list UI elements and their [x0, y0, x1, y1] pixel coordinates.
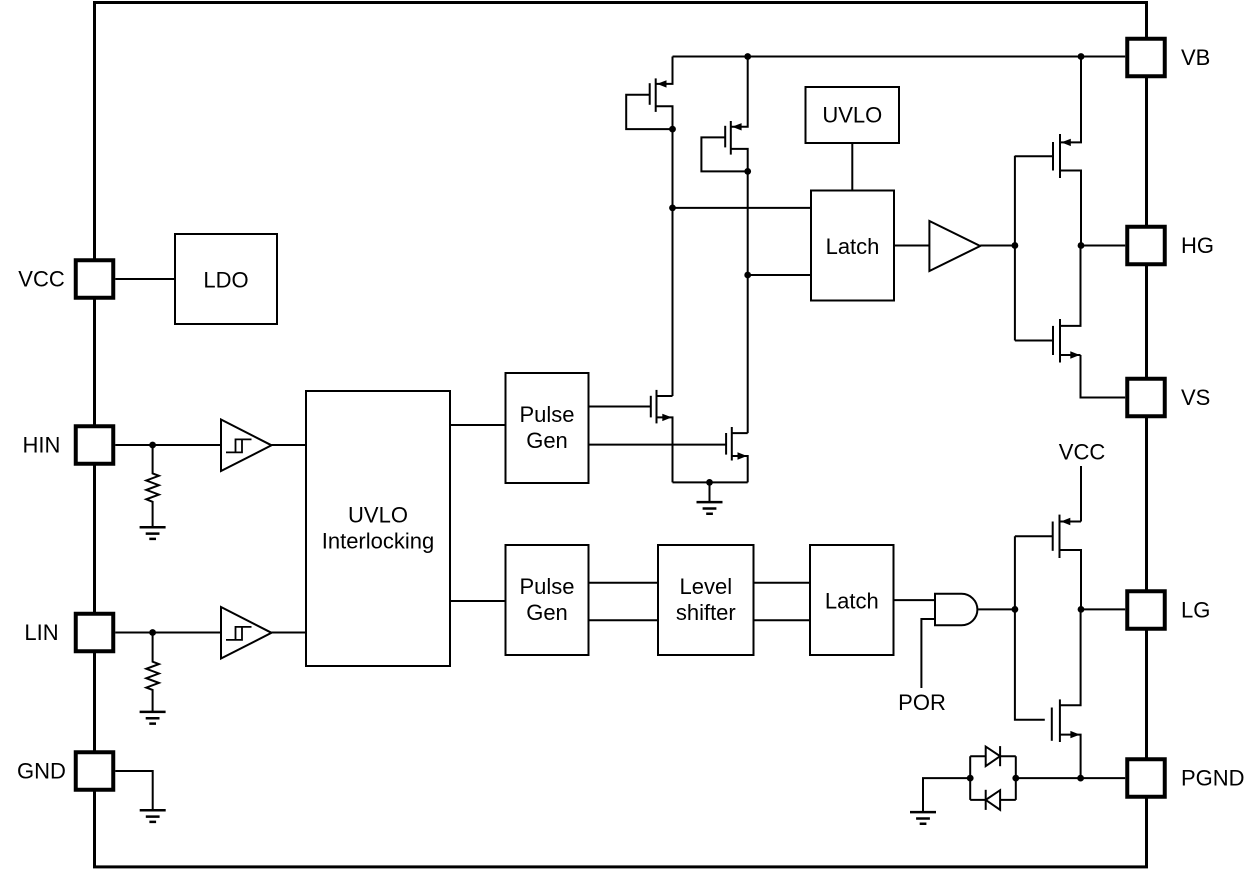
- junction diode pair left: [967, 775, 974, 782]
- svg-text:VB: VB: [1181, 45, 1210, 70]
- wire HG node to HG pin: [1081, 245, 1125, 247]
- arrow Q2 source (PMOS): [732, 123, 742, 130]
- wire Pulse Gen low to Level shifter (upper): [589, 582, 659, 584]
- wire UVLO Interlocking to Pulse Gen low: [450, 600, 506, 602]
- diode D2 (clamp, anode right): [970, 790, 1016, 810]
- transistor Q5 (LG high-side PMOS): [1015, 515, 1081, 610]
- diode D1 (clamp, anode left): [970, 746, 1016, 766]
- junction HIN input node: [149, 442, 156, 449]
- wire level shifter source rail: [673, 482, 748, 502]
- wire UVLO to Latch high: [851, 143, 853, 191]
- resistor R2 (LIN pulldown): [146, 633, 159, 712]
- junction LIN input node: [149, 629, 156, 636]
- junction bus A diode tie: [669, 126, 676, 133]
- AND gate (POR interlock): [935, 594, 977, 626]
- resistor R1 (HIN pulldown): [146, 445, 159, 527]
- svg-text:Latch: Latch: [825, 589, 879, 614]
- wire buffer to UVLO Interlocking (HIN): [272, 444, 307, 446]
- svg-text:LIN: LIN: [24, 620, 58, 645]
- svg-text:POR: POR: [898, 690, 946, 715]
- wire diode pair to PGND node: [1016, 777, 1081, 779]
- wire Latch low to AND gate: [894, 599, 936, 601]
- pin LIN: [76, 614, 114, 652]
- junction bus B diode tie: [744, 168, 751, 175]
- wire HG gate bus: [1014, 156, 1016, 341]
- pin LG: [1127, 591, 1165, 629]
- wire Level shifter to Latch low (upper): [754, 582, 811, 584]
- junction top rail bus B: [744, 53, 751, 60]
- svg-text:Gen: Gen: [526, 428, 568, 453]
- wire diode pair loop: [970, 756, 1016, 800]
- arrow Q6 source (NMOS): [1070, 731, 1080, 738]
- ground (GND pin): [140, 810, 166, 822]
- svg-text:shifter: shifter: [676, 600, 736, 625]
- junction bus B latch tap: [744, 272, 751, 279]
- block UVLO Interlocking: [306, 391, 450, 666]
- svg-text:LDO: LDO: [203, 268, 248, 293]
- buffer (Schmitt trigger, HIN): [221, 420, 272, 472]
- svg-text:UVLO: UVLO: [822, 103, 882, 128]
- arrow Q1 source (PMOS): [657, 80, 667, 87]
- junction LG output node: [1078, 606, 1085, 613]
- ground (level shifter source): [697, 502, 723, 514]
- block Latch (high side): [811, 191, 894, 301]
- svg-text:VCC: VCC: [1059, 440, 1106, 465]
- ground (HIN resistor): [140, 527, 166, 539]
- junction level shifter source rail: [706, 479, 713, 486]
- transistor Q8 (level shift NMOS B): [589, 427, 748, 482]
- transistor Q7 (level shift NMOS A): [589, 390, 673, 483]
- wire VCC stem to LG driver: [1080, 466, 1082, 522]
- wire AND gate output to gate bus: [978, 608, 1015, 610]
- pin VB: [1127, 39, 1165, 77]
- wire LG node to LG pin: [1081, 608, 1125, 610]
- pin HIN: [76, 426, 114, 464]
- arrow Q5 source (PMOS): [1061, 518, 1071, 525]
- junction diode pair right: [1012, 775, 1019, 782]
- wire LG gate bus: [1015, 536, 1045, 719]
- svg-text:Level: Level: [680, 574, 733, 599]
- svg-text:Gen: Gen: [526, 600, 568, 625]
- wire buffer to HG gate bus: [980, 245, 1015, 247]
- wire bus A to Latch high input: [673, 129, 812, 396]
- transistor Q6 (LG low-side NMOS): [1052, 609, 1081, 778]
- svg-text:VS: VS: [1181, 385, 1210, 410]
- arrow Q4 source (NMOS): [1070, 351, 1080, 358]
- svg-text:Latch: Latch: [826, 234, 880, 259]
- wire top rail to VB: [673, 56, 1126, 58]
- transistor Q3 (HG high-side PMOS): [1015, 57, 1081, 246]
- buffer (HG driver): [929, 221, 980, 271]
- svg-text:HG: HG: [1181, 233, 1214, 258]
- buffer (Schmitt trigger, LIN): [221, 607, 272, 659]
- pin PGND: [1127, 759, 1165, 797]
- junction top rail VB tap: [1078, 53, 1085, 60]
- junction HG output node: [1078, 242, 1085, 249]
- arrow Q8 source (NMOS): [738, 452, 748, 459]
- block UVLO: [806, 87, 900, 143]
- ground (PGND clamp): [910, 812, 936, 824]
- junction HG gate bus: [1012, 242, 1019, 249]
- wire HIN pin to buffer: [115, 444, 221, 446]
- block Level shifter: [658, 545, 754, 655]
- pin HG: [1127, 227, 1165, 265]
- svg-text:PGND: PGND: [1181, 766, 1245, 791]
- wire Latch high to buffer: [894, 245, 929, 247]
- wire POR to AND gate: [921, 619, 935, 688]
- pin VS: [1127, 379, 1165, 417]
- junction PGND node: [1077, 775, 1084, 782]
- wire UVLO Interlocking to Pulse Gen high: [450, 424, 506, 426]
- wire VCC pin to LDO: [115, 278, 175, 280]
- wire Pulse Gen low to Level shifter (lower): [589, 619, 659, 621]
- wire buffer to UVLO Interlocking (LIN): [272, 632, 307, 634]
- wire bus B to Latch high input: [748, 171, 811, 433]
- wire PGND node to PGND pin: [1081, 777, 1126, 779]
- arrow Q3 source (PMOS): [1061, 139, 1071, 146]
- junction LG gate bus: [1012, 606, 1019, 613]
- svg-text:Pulse: Pulse: [519, 402, 574, 427]
- wire Level shifter to Latch low (lower): [754, 619, 811, 621]
- ground (LIN resistor): [140, 712, 166, 724]
- block Latch (low side): [810, 545, 894, 655]
- pin GND: [76, 752, 114, 790]
- wire VS lead to VS pin: [1081, 355, 1126, 398]
- svg-text:Pulse: Pulse: [519, 574, 574, 599]
- svg-text:Interlocking: Interlocking: [322, 529, 435, 554]
- arrow Q7 source (NMOS): [662, 414, 672, 421]
- wire LIN pin to buffer: [115, 632, 221, 634]
- transistor Q2 (diode-connected PMOS, level shift B): [701, 57, 747, 172]
- svg-text:GND: GND: [17, 759, 66, 784]
- svg-text:UVLO: UVLO: [348, 503, 408, 528]
- block LDO: [175, 234, 277, 324]
- transistor Q4 (HG low-side NMOS): [1015, 246, 1081, 363]
- block Pulse Gen (low side): [506, 545, 589, 655]
- wire diode pair to ground: [923, 778, 970, 812]
- svg-text:VCC: VCC: [18, 267, 65, 292]
- wire GND pin to ground: [115, 771, 153, 810]
- block Pulse Gen (high side): [506, 373, 589, 483]
- svg-text:LG: LG: [1181, 598, 1210, 623]
- pin VCC: [76, 260, 114, 298]
- svg-text:HIN: HIN: [23, 433, 61, 458]
- transistor Q1 (diode-connected PMOS, level shift A): [626, 57, 672, 130]
- junction bus A latch tap: [669, 205, 676, 212]
